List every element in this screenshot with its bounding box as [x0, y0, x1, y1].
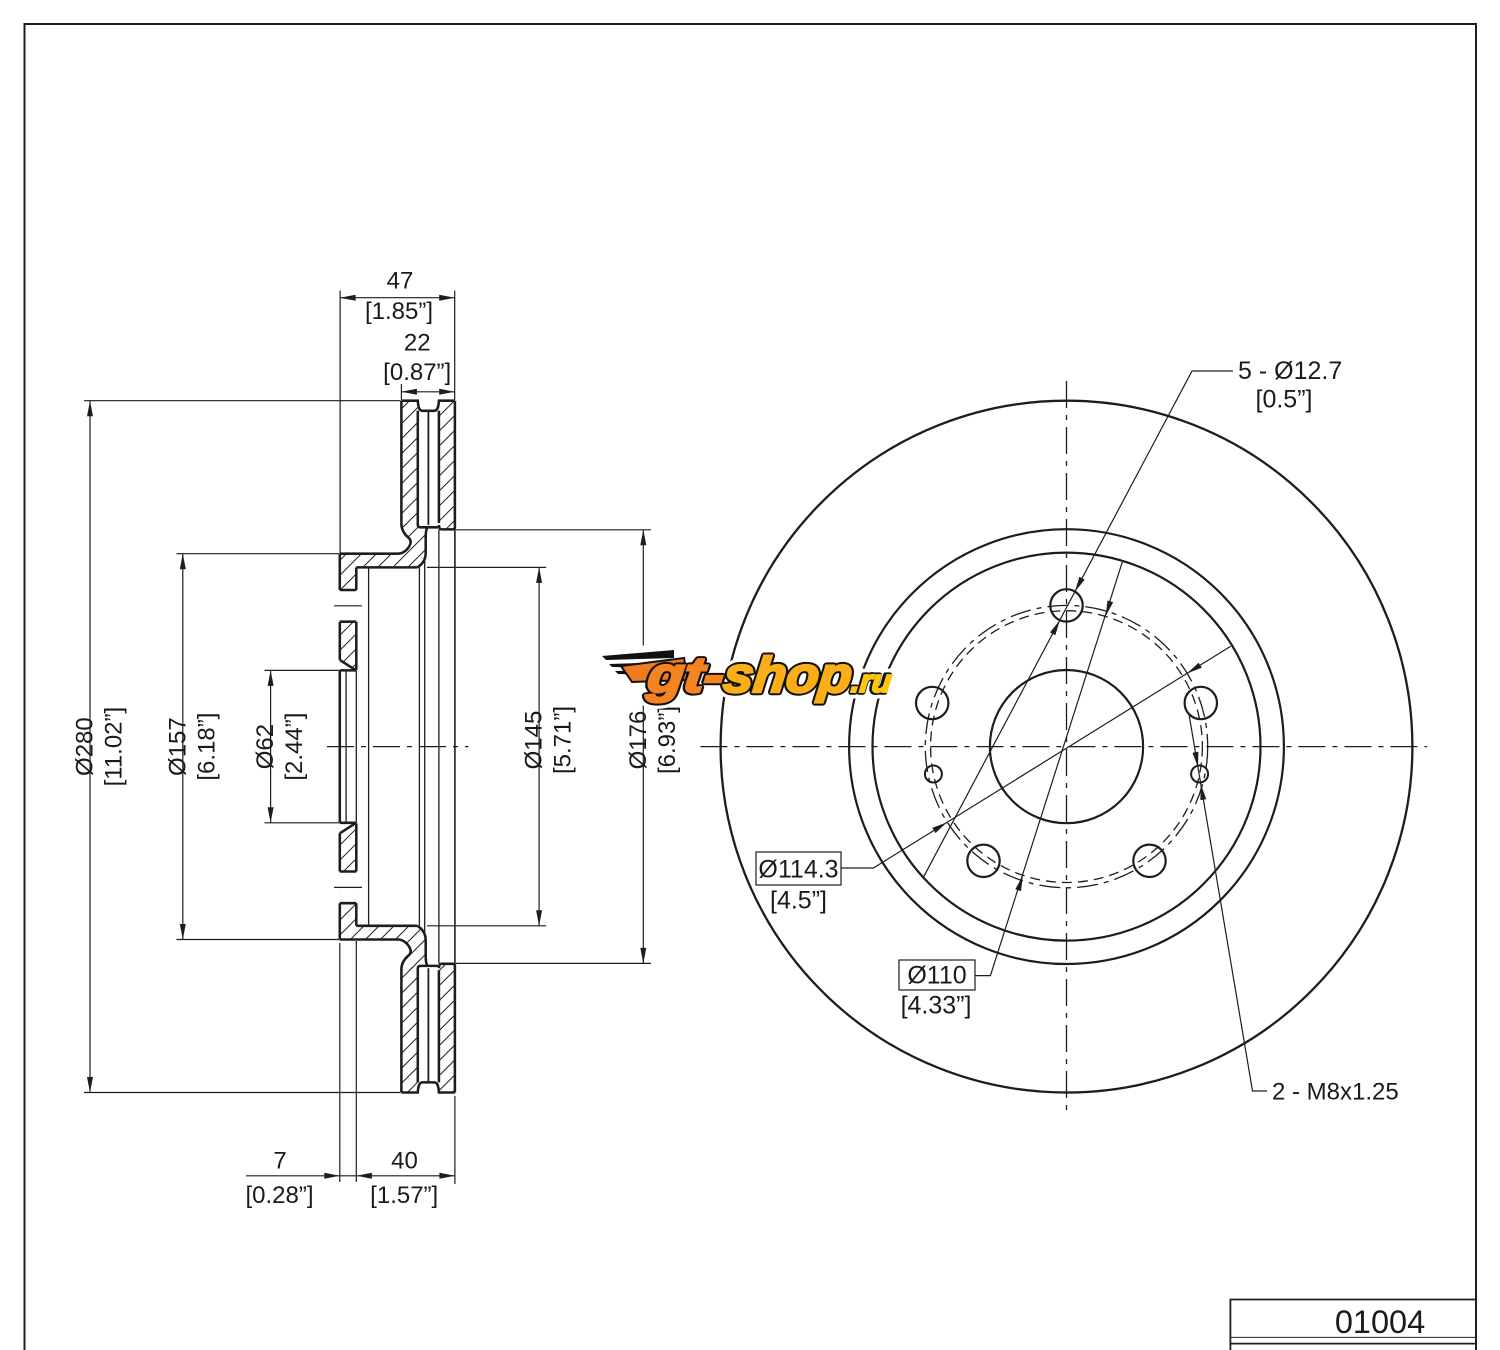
svg-text:2 - M8x1.25: 2 - M8x1.25 [1272, 1079, 1399, 1106]
svg-text:[0.28”]: [0.28”] [245, 1182, 313, 1209]
dimension D62 [2.44"] hub bore [265, 670, 340, 822]
svg-text:Ø110: Ø110 [907, 962, 966, 990]
svg-text:[0.5”]: [0.5”] [1256, 386, 1313, 414]
section view axis centerline [327, 746, 469, 748]
svg-text:7: 7 [273, 1148, 286, 1175]
internal visible edges through voids [346, 529, 455, 963]
lug hole centerline ticks in flange section [334, 606, 362, 888]
section view: hatched cut areas of brake disc profile [340, 401, 455, 1093]
dimension D176 [6.93"] [456, 530, 651, 964]
svg-text:[0.87”]: [0.87”] [383, 359, 451, 386]
lug bolt hole cut-outs in mounting flange (section) [340, 590, 357, 622]
two M8x1.25 holes on D110 [1191, 766, 1208, 783]
svg-text:5 - Ø12.7: 5 - Ø12.7 [1238, 357, 1342, 385]
dimension 47 [1.85"] overall width [340, 291, 455, 554]
title block with part number 01004 [1230, 1300, 1476, 1350]
gt-shop.ru watermark logo [602, 647, 895, 703]
leader D114.3 [4.5"] bolt circle [841, 646, 1231, 868]
front view: circle D157 [873, 553, 1261, 941]
dimension D157 [6.18"] [177, 554, 340, 940]
svg-text:40: 40 [391, 1148, 418, 1175]
svg-text:[1.85”]: [1.85”] [365, 298, 433, 325]
dimensions 7 [0.28"] and 40 [1.57"] [246, 941, 455, 1184]
bolt circle D114.3 dash-dot [925, 605, 1207, 887]
svg-text:01004: 01004 [1335, 1304, 1425, 1340]
section profile outlines [340, 401, 455, 1093]
five lug holes D12.7 on D114.3 [1050, 589, 1082, 621]
svg-text:[4.5”]: [4.5”] [770, 887, 827, 915]
leader D110 [4.33"] [975, 561, 1123, 976]
front view: circle D176 [849, 529, 1284, 964]
dimension D145 [5.71"] [427, 567, 546, 925]
svg-text:shop: shop [721, 647, 855, 703]
leader 2 - M8x1.25 to right M8 hole [1189, 713, 1267, 1091]
svg-text:22: 22 [404, 330, 431, 357]
leader 5 - D12.7 [0.5"] to top lug hole [923, 371, 1233, 878]
dimension D280 [11.02"] [84, 401, 401, 1093]
front view: outer circle D280 [721, 401, 1413, 1093]
svg-text:Ø114.3: Ø114.3 [758, 856, 838, 884]
svg-text:gt-: gt- [644, 647, 727, 703]
svg-text:.ru: .ru [850, 663, 894, 699]
circle D110 dashed [931, 611, 1203, 883]
front view: hub bore D62 [990, 670, 1143, 823]
front view vertical centerline [1066, 381, 1068, 1110]
svg-text:47: 47 [387, 267, 414, 294]
svg-text:[1.57”]: [1.57”] [370, 1182, 438, 1209]
svg-text:[4.33”]: [4.33”] [901, 992, 972, 1020]
front view horizontal centerline [700, 746, 1427, 748]
